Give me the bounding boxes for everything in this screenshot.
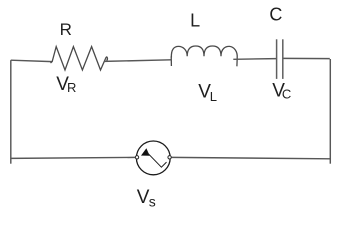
svg-text:C: C <box>269 5 282 25</box>
svg-text:C: C <box>282 86 291 101</box>
svg-text:s: s <box>149 194 156 210</box>
svg-text:R: R <box>60 20 72 39</box>
svg-text:L: L <box>210 89 217 104</box>
svg-text:L: L <box>190 11 200 31</box>
svg-text:R: R <box>67 80 76 95</box>
